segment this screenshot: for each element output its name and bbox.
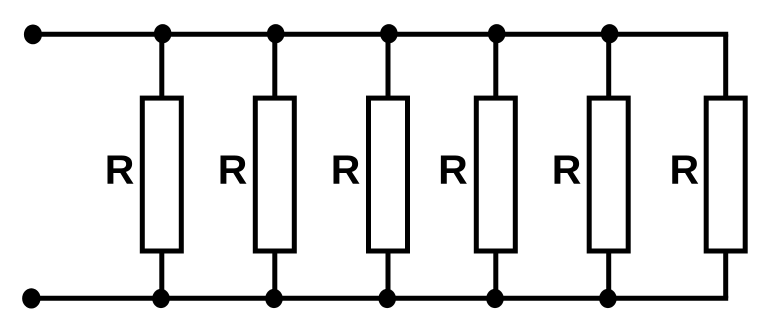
junction bottom 1 bbox=[152, 289, 170, 308]
svg-text:R: R bbox=[105, 147, 135, 193]
terminal bottom-left bbox=[22, 288, 40, 308]
svg-text:R: R bbox=[552, 147, 582, 193]
wire R3 branch bbox=[386, 34, 391, 298]
junction top 2 bbox=[267, 24, 285, 43]
svg-text:R: R bbox=[218, 147, 248, 193]
svg-text:R: R bbox=[438, 147, 468, 193]
wire top rail bbox=[33, 32, 728, 37]
junction bottom 2 bbox=[265, 289, 283, 308]
resistor R3 bbox=[369, 98, 408, 251]
wire R2 branch bbox=[272, 34, 277, 298]
junction bottom 5 bbox=[599, 289, 617, 308]
resistor R4 bbox=[476, 98, 515, 251]
wire R4 branch bbox=[493, 34, 498, 298]
junction top 3 bbox=[380, 24, 398, 43]
svg-text:R: R bbox=[669, 147, 699, 193]
wire bottom rail bbox=[31, 296, 728, 301]
resistor R2 bbox=[255, 98, 294, 251]
wire R1 branch bbox=[159, 34, 164, 298]
wire R6 branch (right side) bbox=[723, 34, 728, 298]
svg-text:R: R bbox=[331, 147, 361, 193]
wire R5 branch bbox=[606, 34, 611, 298]
resistor R5 bbox=[589, 98, 628, 251]
terminal top-left bbox=[24, 25, 42, 45]
junction bottom 3 bbox=[378, 289, 396, 308]
junction top 1 bbox=[154, 24, 172, 43]
junction top 5 bbox=[601, 24, 619, 43]
resistor R1 bbox=[142, 98, 181, 251]
junction bottom 4 bbox=[486, 289, 504, 308]
resistor R6 bbox=[706, 98, 745, 251]
junction top 4 bbox=[488, 24, 506, 43]
